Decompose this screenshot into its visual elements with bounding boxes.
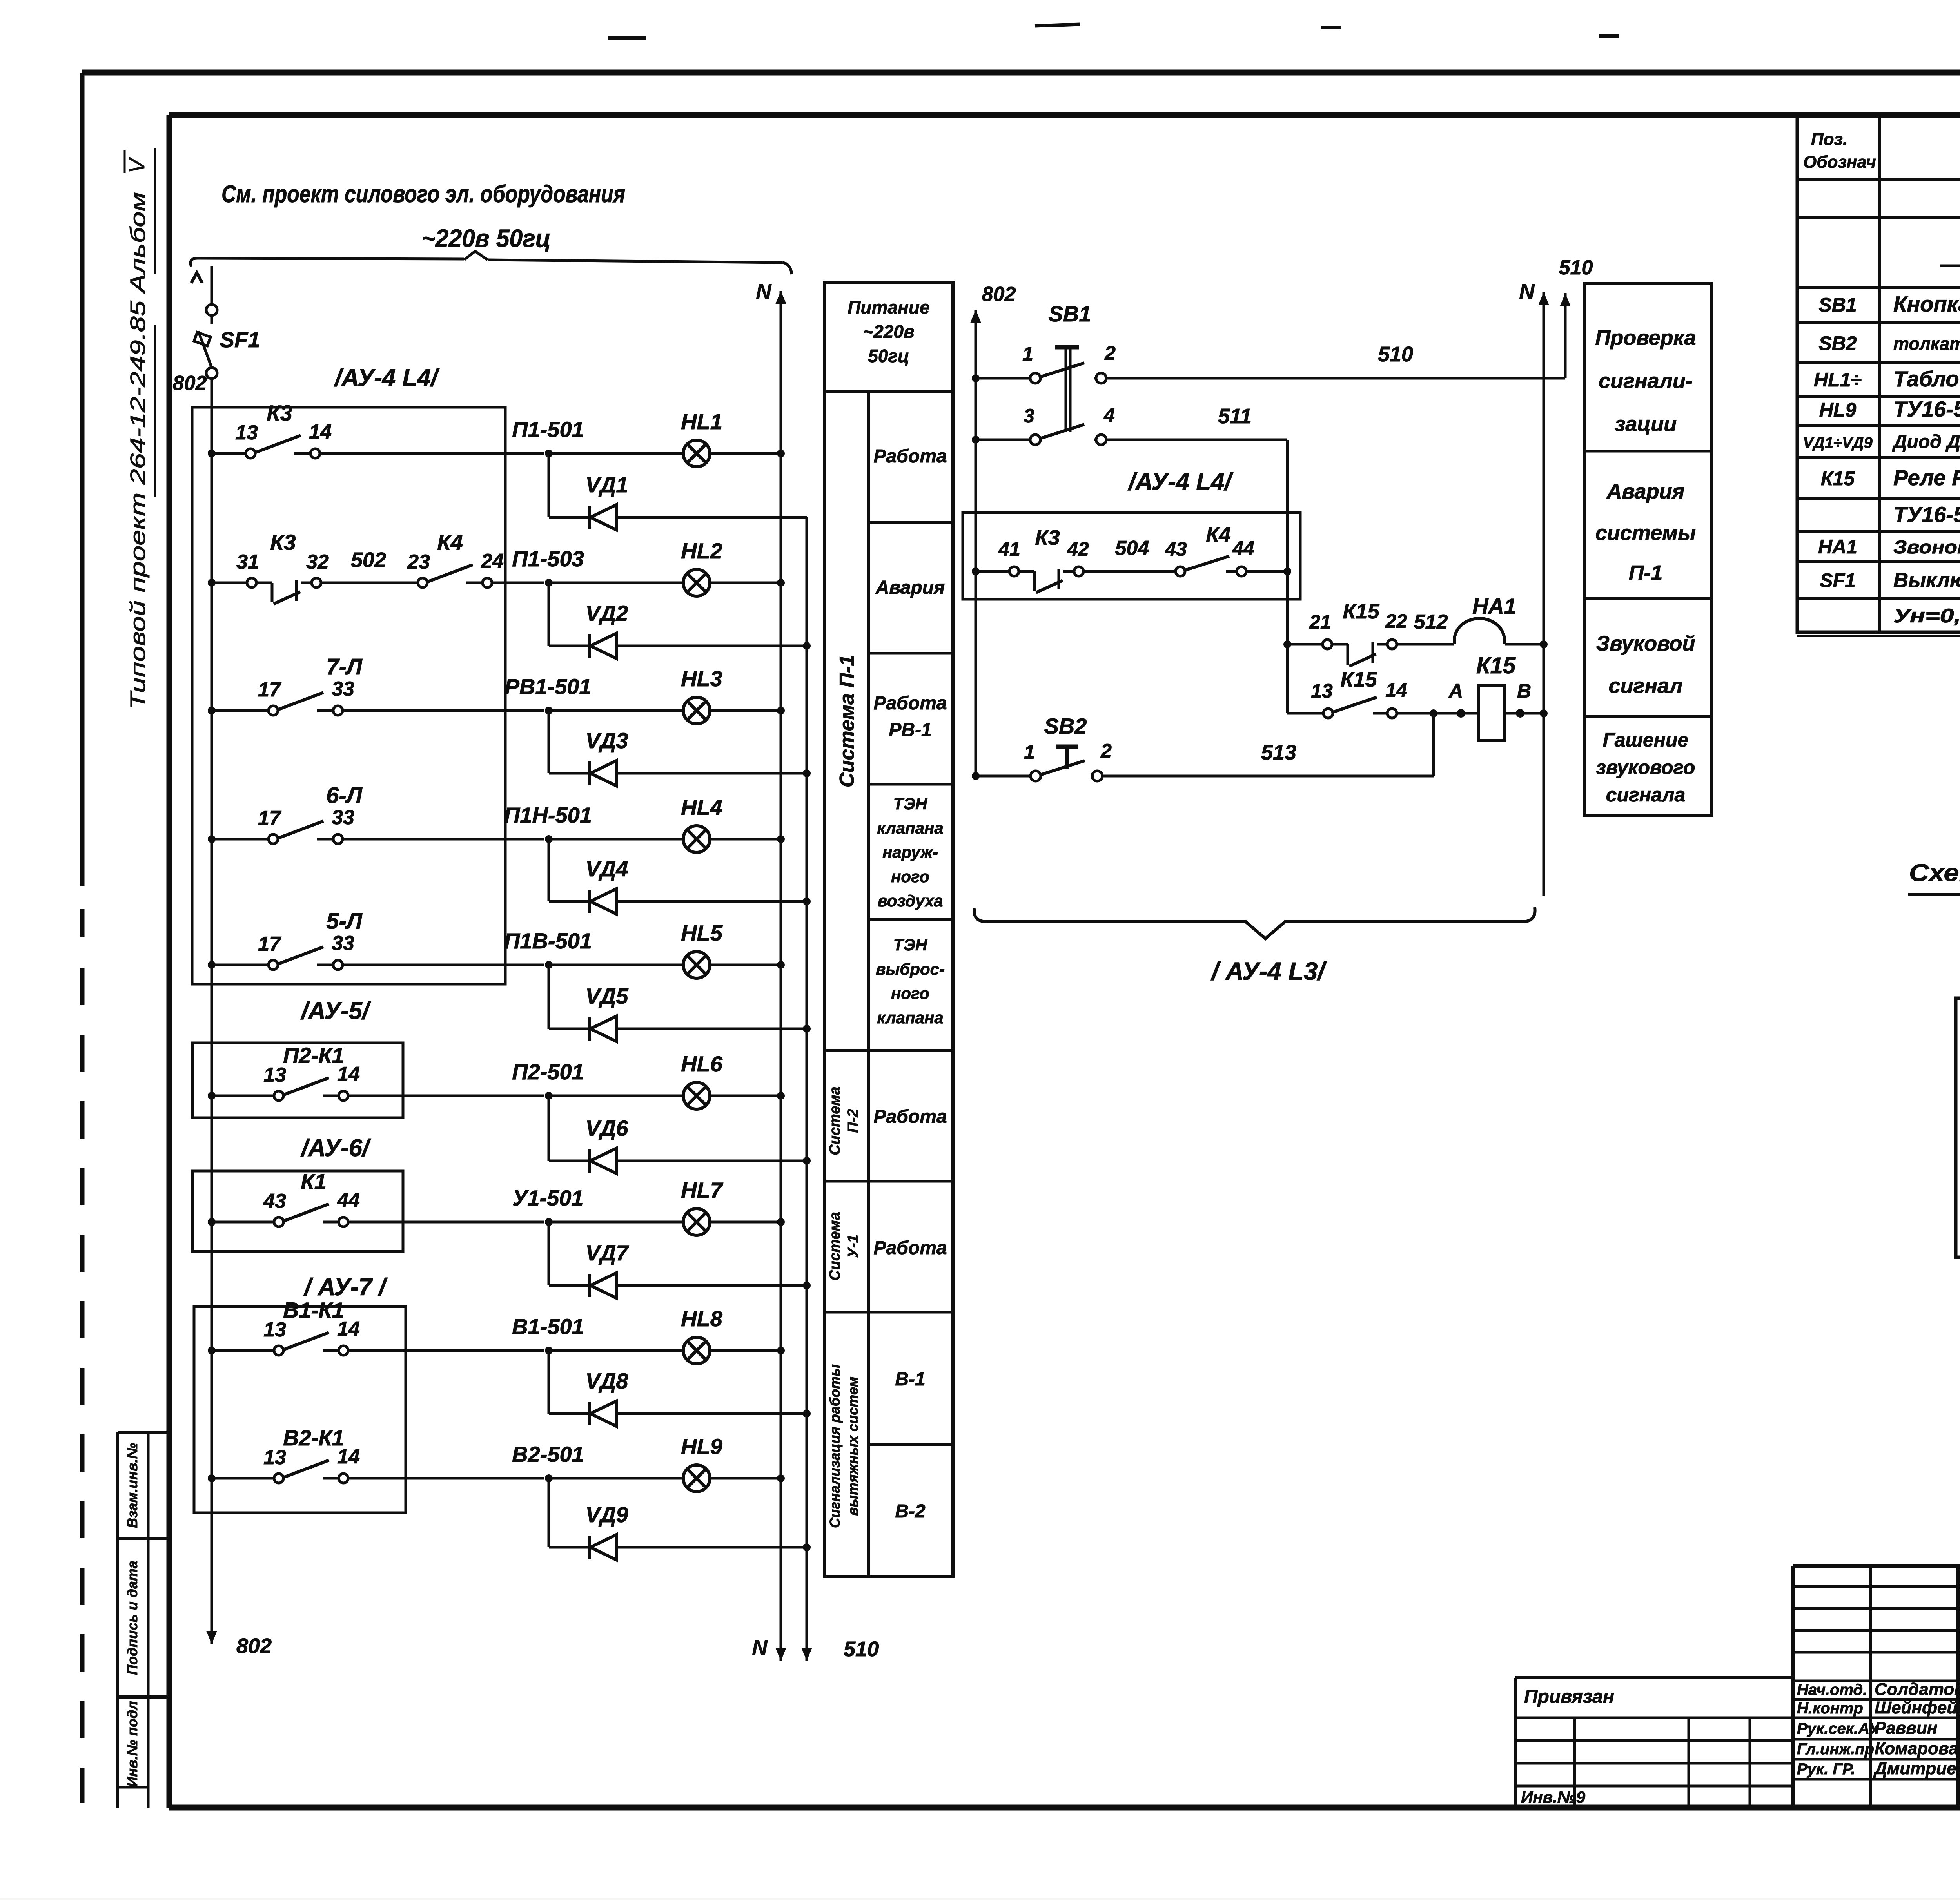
wire node to lamp bbox=[549, 838, 683, 841]
wire row 2 from bus bbox=[208, 579, 216, 587]
diode VД2 bbox=[588, 634, 591, 658]
svg-text:HL8: HL8 bbox=[681, 1306, 723, 1331]
push button SB1 bbox=[972, 374, 980, 382]
wire lamp to N bus bbox=[710, 1095, 781, 1097]
wire row 3 from bus bbox=[208, 707, 216, 714]
contact terminal 13 bbox=[274, 1346, 283, 1355]
wire diode to 510 bus bbox=[616, 1546, 807, 1549]
svg-text:/АУ-4 L4/: /АУ-4 L4/ bbox=[334, 364, 440, 392]
wire node drop to diode VД4 bbox=[548, 839, 550, 901]
svg-text:П2-501: П2-501 bbox=[512, 1059, 584, 1084]
svg-text:V: V bbox=[124, 157, 149, 173]
svg-text:~220в 50гц: ~220в 50гц bbox=[421, 224, 551, 252]
svg-text:5-Л: 5-Л bbox=[326, 908, 363, 934]
title block signature grid bbox=[1791, 1566, 1795, 1808]
wire node to lamp bbox=[549, 1477, 683, 1480]
lamp HL2 bbox=[683, 569, 710, 596]
contact terminal 17 bbox=[269, 960, 278, 970]
drawing frame bbox=[169, 112, 1960, 118]
svg-text:П1-501: П1-501 bbox=[512, 417, 584, 442]
wire lamp to N bus bbox=[710, 1349, 781, 1352]
svg-text:23: 23 bbox=[407, 551, 430, 573]
node П1-503 bbox=[545, 579, 553, 587]
svg-text:Привязан: Привязан bbox=[1524, 1686, 1614, 1707]
wire lamp to N bus bbox=[710, 582, 781, 584]
parts table frame bbox=[1797, 115, 1960, 632]
svg-text:К15: К15 bbox=[1340, 668, 1377, 691]
wire diode to 510 bus bbox=[616, 772, 807, 775]
svg-text:См. проект силового эл. обор: См. проект силового эл. оборудования bbox=[221, 181, 625, 208]
svg-text:HL2: HL2 bbox=[681, 538, 722, 563]
svg-text:13: 13 bbox=[1311, 680, 1333, 702]
svg-text:14: 14 bbox=[1385, 679, 1407, 701]
svg-text:502: 502 bbox=[351, 548, 386, 572]
wire node drop to diode VД6 bbox=[548, 1096, 550, 1161]
svg-text:41: 41 bbox=[998, 538, 1020, 560]
svg-text:Солдатов: Солдатов bbox=[1875, 1680, 1960, 1699]
wire node to lamp bbox=[549, 964, 683, 966]
wire node drop to diode VД8 bbox=[548, 1351, 550, 1414]
contact terminal 33 bbox=[317, 709, 332, 712]
svg-text:НА1: НА1 bbox=[1472, 594, 1516, 618]
svg-text:VД1÷VД9: VД1÷VД9 bbox=[1803, 434, 1873, 451]
svg-text:HL6: HL6 bbox=[681, 1052, 723, 1076]
svg-text:В-1: В-1 bbox=[895, 1369, 925, 1390]
svg-text:512: 512 bbox=[1414, 611, 1448, 633]
svg-text:П1-503: П1-503 bbox=[512, 546, 584, 571]
svg-text:511: 511 bbox=[1218, 404, 1252, 428]
svg-text:Табло ТСМ-Ш-УЗ-01: Табло ТСМ-Ш-УЗ-01 bbox=[1893, 366, 1960, 391]
svg-text:Обознач: Обознач bbox=[1803, 152, 1876, 172]
svg-text:Дмитриева: Дмитриева bbox=[1873, 1759, 1960, 1778]
svg-text:17: 17 bbox=[258, 807, 281, 830]
svg-text:В2-501: В2-501 bbox=[512, 1442, 584, 1467]
svg-text:Работа: Работа bbox=[873, 693, 947, 714]
lamp HL9 bbox=[683, 1465, 710, 1492]
svg-text:17: 17 bbox=[258, 678, 281, 701]
svg-text:Авария: Авария bbox=[1606, 480, 1685, 503]
svg-text:Инв.№9: Инв.№9 bbox=[1521, 1788, 1586, 1806]
svg-text:2: 2 bbox=[1104, 342, 1116, 364]
svg-text:VД8: VД8 bbox=[586, 1369, 629, 1393]
wire 511 bbox=[1106, 439, 1287, 441]
svg-text:VД5: VД5 bbox=[586, 984, 629, 1008]
svg-text:44: 44 bbox=[337, 1189, 360, 1212]
svg-text:33: 33 bbox=[332, 806, 354, 829]
diode VД9 bbox=[588, 1536, 591, 1559]
svg-text:17: 17 bbox=[258, 933, 281, 955]
wire row 8 from bus bbox=[208, 1347, 216, 1354]
svg-text:N: N bbox=[756, 280, 772, 303]
contact terminal 14 bbox=[323, 1477, 338, 1480]
contact К4 43-44 bbox=[1176, 567, 1185, 576]
svg-text:Нач.отд.: Нач.отд. bbox=[1797, 1681, 1867, 1699]
wire lamp to N bus bbox=[710, 964, 781, 966]
svg-text:504: 504 bbox=[1115, 537, 1149, 560]
wire node drop to diode VД2 bbox=[548, 583, 550, 646]
svg-text:13: 13 bbox=[235, 421, 258, 444]
diode VД7 bbox=[588, 1274, 591, 1297]
wire 510 bbox=[1106, 377, 1565, 380]
svg-text:Рук.сек.АУ: Рук.сек.АУ bbox=[1797, 1720, 1880, 1737]
contact terminal 17 bbox=[269, 706, 278, 715]
lamp HL4 bbox=[683, 826, 710, 852]
contact К15 13-14 bbox=[1287, 712, 1323, 715]
phase mark L bbox=[191, 273, 202, 283]
svg-text:Раввин: Раввин bbox=[1875, 1719, 1937, 1738]
diode VД4 bbox=[588, 890, 591, 913]
diode VД6 bbox=[588, 1149, 591, 1173]
wire node drop to diode VД7 bbox=[548, 1222, 550, 1285]
svg-text:/ АУ-7 /: / АУ-7 / bbox=[303, 1274, 388, 1301]
svg-text:НА1: НА1 bbox=[1818, 536, 1857, 558]
wire diode to 510 bus bbox=[616, 516, 807, 519]
svg-text:SB1: SB1 bbox=[1818, 294, 1857, 316]
wire row 1 from bus bbox=[208, 450, 216, 457]
svg-text:сигнала: сигнала bbox=[1606, 784, 1686, 806]
wire lamp to N bus bbox=[710, 452, 781, 455]
svg-text:33: 33 bbox=[332, 678, 354, 700]
wire B to N bus bbox=[1505, 712, 1544, 715]
svg-text:Сигнализация работы: Сигнализация работы bbox=[827, 1364, 843, 1528]
svg-text:К3: К3 bbox=[1035, 526, 1060, 549]
svg-text:А: А bbox=[1448, 680, 1463, 702]
svg-text:Авария: Авария bbox=[875, 577, 945, 598]
brace АУ-4 L3 bbox=[975, 907, 1535, 939]
node П1Н-501 bbox=[545, 835, 553, 843]
svg-text:К3: К3 bbox=[270, 530, 296, 555]
relay coil К15 bbox=[1479, 686, 1505, 741]
svg-text:HL5: HL5 bbox=[681, 921, 723, 945]
contact terminal 33 bbox=[317, 838, 332, 841]
svg-text:вытяжных систем: вытяжных систем bbox=[845, 1377, 861, 1516]
svg-text:802: 802 bbox=[173, 372, 207, 395]
push button SB1 second contact 3-4 bbox=[972, 436, 980, 444]
contact blade bbox=[279, 947, 323, 964]
wire node to lamp bbox=[549, 709, 683, 712]
svg-text:ного: ного bbox=[891, 984, 929, 1003]
svg-text:SB1: SB1 bbox=[1049, 301, 1091, 326]
wire 510 riser with arrow bbox=[1564, 310, 1567, 378]
wire 14 to coil bbox=[1397, 712, 1479, 715]
wire node drop to diode VД5 bbox=[548, 965, 550, 1029]
wire row 7 from bus bbox=[208, 1218, 216, 1226]
contact terminal 13 bbox=[274, 1091, 283, 1100]
svg-text:П1Н-501: П1Н-501 bbox=[504, 803, 592, 827]
sheet outer border top line bbox=[82, 70, 1960, 76]
svg-text:В1-501: В1-501 bbox=[512, 1314, 584, 1339]
contact blade bbox=[256, 435, 301, 452]
node П1-501 bbox=[545, 450, 553, 457]
svg-text:31: 31 bbox=[236, 551, 259, 573]
wire К3 К4 row bbox=[972, 567, 980, 575]
lamp HL7 bbox=[683, 1209, 710, 1235]
svg-text:ТЭН: ТЭН bbox=[893, 935, 928, 954]
push button SB2 bbox=[972, 772, 980, 780]
svg-text:6-Л: 6-Л bbox=[326, 783, 363, 808]
contact blade NC bbox=[256, 582, 272, 584]
wire node to lamp bbox=[549, 452, 683, 455]
svg-text:звукового: звукового bbox=[1596, 756, 1695, 778]
title block top line bbox=[1793, 1564, 1960, 1568]
svg-text:К3: К3 bbox=[267, 401, 292, 425]
svg-text:HL7: HL7 bbox=[681, 1178, 724, 1202]
svg-text:VД7: VД7 bbox=[586, 1240, 630, 1265]
wire diode to 510 bus bbox=[616, 1028, 807, 1030]
svg-text:VД4: VД4 bbox=[586, 856, 628, 881]
terminal A bbox=[1457, 709, 1465, 718]
svg-text:43: 43 bbox=[1165, 538, 1187, 560]
wire row 4 from bus bbox=[208, 835, 216, 843]
contact terminal 13 bbox=[246, 449, 255, 458]
margin text Типовой проект 264-12-249.85 Альбом V bbox=[124, 157, 150, 709]
svg-text:В2-К1: В2-К1 bbox=[283, 1425, 344, 1450]
svg-text:Выключатель автоматический А: Выключатель автоматический А63-МУЗ bbox=[1893, 569, 1960, 592]
node В1-501 bbox=[545, 1347, 553, 1354]
svg-text:толкатель черный, без надписи: толкатель черный, без надписи ТУ16-526.4… bbox=[1893, 333, 1960, 354]
svg-text:В-2: В-2 bbox=[895, 1501, 926, 1522]
wire row 6 from bus bbox=[208, 1092, 216, 1100]
svg-text:Звуковой: Звуковой bbox=[1596, 632, 1695, 655]
wire lamp to N bus bbox=[710, 1221, 781, 1224]
svg-text:К15: К15 bbox=[1821, 468, 1855, 490]
wire lamp to N bus bbox=[710, 1477, 781, 1480]
svg-text:4: 4 bbox=[1103, 404, 1115, 426]
svg-text:К4: К4 bbox=[1206, 523, 1230, 546]
svg-text:510: 510 bbox=[1378, 343, 1413, 366]
svg-text:1: 1 bbox=[1022, 343, 1033, 365]
wire diode to 510 bus bbox=[616, 900, 807, 903]
contact blade bbox=[284, 1078, 329, 1095]
svg-text:Взам.инв.№: Взам.инв.№ bbox=[124, 1443, 140, 1528]
svg-text:клапана: клапана bbox=[877, 1008, 944, 1027]
diode VД3 bbox=[588, 761, 591, 785]
svg-text:К15: К15 bbox=[1343, 600, 1379, 623]
contact blade bbox=[284, 1333, 329, 1349]
svg-text:SB2: SB2 bbox=[1044, 714, 1087, 738]
lamp HL3 bbox=[683, 697, 710, 724]
supply bus ~220v 50Hz bbox=[191, 258, 464, 267]
svg-text:HL9: HL9 bbox=[681, 1434, 722, 1459]
contact blade bbox=[279, 821, 323, 838]
svg-text:3: 3 bbox=[1024, 405, 1034, 427]
svg-text:У-1: У-1 bbox=[845, 1235, 861, 1258]
wire left bus 802 bbox=[211, 379, 213, 1630]
svg-text:Шейнфейн: Шейнфейн bbox=[1875, 1698, 1960, 1717]
svg-text:VД9: VД9 bbox=[586, 1502, 628, 1527]
scan specks top edge bbox=[608, 36, 646, 40]
svg-text:HL1÷: HL1÷ bbox=[1814, 369, 1862, 391]
block box АУ-4 L4 (left) bbox=[192, 407, 505, 984]
pinout box bbox=[1956, 998, 1960, 1257]
svg-text:22: 22 bbox=[1385, 610, 1407, 632]
wire node drop to diode VД1 bbox=[548, 453, 550, 517]
contact terminal 13 bbox=[274, 1474, 283, 1483]
diode VД5 bbox=[588, 1017, 591, 1041]
block box АУ-7 bbox=[194, 1307, 406, 1513]
svg-text:Система: Система bbox=[827, 1212, 843, 1280]
wire diode to 510 bus bbox=[616, 645, 807, 647]
svg-text:42: 42 bbox=[1067, 538, 1089, 560]
svg-text:Кнопка КЕ-011УЗ, исполнение 1: Кнопка КЕ-011УЗ, исполнение 1 bbox=[1893, 292, 1960, 316]
wire 513 riser bbox=[1432, 713, 1435, 776]
wire N bus (check circuit) bbox=[1543, 292, 1545, 337]
block box АУ-4 L4 (check circuit) bbox=[963, 513, 1300, 599]
svg-text:7-Л: 7-Л bbox=[326, 654, 363, 680]
svg-text:2: 2 bbox=[1100, 740, 1112, 762]
wire N bus bbox=[780, 291, 782, 314]
right label boxes frame bbox=[1584, 283, 1711, 815]
contact terminal 14 bbox=[294, 452, 310, 455]
wire diode to 510 bus bbox=[616, 1284, 807, 1287]
contact blade bbox=[279, 693, 323, 709]
svg-text:/АУ-5/: /АУ-5/ bbox=[300, 997, 371, 1024]
svg-text:Инв.№ подл: Инв.№ подл bbox=[124, 1701, 140, 1787]
svg-text:Комарова: Комарова bbox=[1875, 1739, 1958, 1758]
svg-text:1: 1 bbox=[1024, 741, 1035, 763]
svg-text:системы: системы bbox=[1595, 521, 1696, 545]
contact terminal 23 bbox=[418, 578, 427, 587]
wire 513 bbox=[1102, 775, 1434, 778]
svg-text:П-1: П-1 bbox=[1629, 561, 1663, 585]
svg-text:Ун=0,8А Уотс=2Ун ТУ16.522.: Ун=0,8А Уотс=2Ун ТУ16.522.110-74 bbox=[1893, 605, 1960, 627]
wire bell to N bbox=[1505, 643, 1544, 646]
svg-text:ТЭН: ТЭН bbox=[893, 794, 928, 813]
contact terminal 14 bbox=[323, 1095, 338, 1097]
svg-text:44: 44 bbox=[1232, 537, 1254, 559]
wire node to lamp bbox=[549, 1221, 683, 1224]
svg-text:50гц: 50гц bbox=[868, 346, 909, 366]
svg-text:VД1: VД1 bbox=[586, 472, 628, 497]
node П2-501 bbox=[545, 1092, 553, 1100]
terminal B bbox=[1516, 709, 1524, 718]
sheet outer border left line bbox=[80, 73, 85, 886]
signal table frame bbox=[825, 283, 953, 1576]
wire node drop to diode VД3 bbox=[548, 711, 550, 773]
svg-text:К1: К1 bbox=[301, 1169, 327, 1194]
svg-text:43: 43 bbox=[263, 1190, 286, 1213]
svg-text:Работа: Работа bbox=[873, 1238, 947, 1258]
svg-text:HL3: HL3 bbox=[681, 666, 722, 691]
svg-text:Схема выводов контактов: Схема выводов контактов bbox=[1909, 859, 1960, 887]
svg-text:Реле РПУ-2-062203 ~220в: Реле РПУ-2-062203 ~220в bbox=[1893, 465, 1960, 490]
wire to 21-22 row bbox=[1286, 571, 1289, 713]
svg-text:VД6: VД6 bbox=[586, 1116, 629, 1140]
node В2-501 bbox=[545, 1474, 553, 1482]
contact terminal 14 bbox=[323, 1349, 338, 1352]
Привязан strip bbox=[1515, 1676, 1793, 1679]
svg-text:П2-К1: П2-К1 bbox=[283, 1043, 344, 1068]
wire node to lamp bbox=[549, 582, 683, 584]
svg-text:сигнал: сигнал bbox=[1609, 674, 1683, 698]
svg-text:N: N bbox=[1519, 280, 1535, 303]
contact terminal 33 bbox=[317, 964, 332, 966]
node У1-501 bbox=[545, 1218, 553, 1226]
contact blade bbox=[284, 1460, 329, 1477]
wire lamp to N bus bbox=[710, 709, 781, 712]
svg-text:Подпись и дата: Подпись и дата bbox=[124, 1561, 140, 1675]
svg-text:Проверка: Проверка bbox=[1595, 326, 1696, 350]
svg-text:HL9: HL9 bbox=[1819, 399, 1857, 421]
svg-text:Поз.: Поз. bbox=[1811, 130, 1847, 149]
svg-text:П-2: П-2 bbox=[845, 1109, 861, 1133]
svg-text:~220в: ~220в bbox=[863, 321, 914, 342]
svg-text:зации: зации bbox=[1615, 412, 1677, 436]
contact terminal 24 bbox=[466, 582, 482, 584]
circuit breaker SF1 bbox=[211, 266, 213, 305]
svg-text:ТУ16-523.331-78: ТУ16-523.331-78 bbox=[1893, 502, 1960, 527]
svg-text:Типовой проект 264-12-249.85: Типовой проект 264-12-249.85 Альбом bbox=[126, 192, 150, 709]
svg-text:/АУ-6/: /АУ-6/ bbox=[300, 1135, 371, 1162]
svg-text:N: N bbox=[752, 1636, 768, 1659]
svg-text:SF1: SF1 bbox=[1820, 569, 1856, 591]
svg-text:14: 14 bbox=[309, 421, 332, 443]
svg-text:/ АУ-4 L3/: / АУ-4 L3/ bbox=[1210, 957, 1327, 985]
svg-text:SB2: SB2 bbox=[1818, 332, 1857, 354]
contact terminal 17 bbox=[269, 834, 278, 844]
svg-text:В1-К1: В1-К1 bbox=[283, 1298, 344, 1322]
wire node to lamp bbox=[549, 1349, 683, 1352]
svg-text:510: 510 bbox=[844, 1637, 879, 1661]
svg-text:У1-501: У1-501 bbox=[512, 1186, 583, 1210]
svg-text:VД2: VД2 bbox=[586, 601, 628, 625]
wire row 9 from bus bbox=[208, 1474, 216, 1482]
svg-text:Рук. ГР.: Рук. ГР. bbox=[1797, 1760, 1855, 1778]
svg-text:ного: ного bbox=[891, 867, 929, 886]
bell HA1 bbox=[1454, 618, 1504, 644]
svg-text:802: 802 bbox=[236, 1634, 272, 1658]
svg-text:РВ-1: РВ-1 bbox=[889, 720, 931, 740]
wire diode to 510 bus bbox=[616, 1160, 807, 1162]
svg-text:П1В-501: П1В-501 bbox=[504, 928, 592, 953]
wire row 5 from bus bbox=[208, 961, 216, 969]
wire 512 bbox=[1397, 643, 1454, 646]
svg-text:510: 510 bbox=[1559, 256, 1593, 279]
node П1В-501 bbox=[545, 961, 553, 969]
svg-text:513: 513 bbox=[1261, 741, 1296, 764]
lamp HL5 bbox=[683, 952, 710, 978]
contact terminal 43 bbox=[274, 1217, 283, 1227]
svg-text:HL1: HL1 bbox=[681, 409, 722, 434]
svg-text:VД3: VД3 bbox=[586, 728, 628, 753]
wire lamp to N bus bbox=[710, 838, 781, 841]
svg-text:802: 802 bbox=[982, 283, 1016, 306]
svg-text:наруж-: наруж- bbox=[882, 843, 938, 861]
svg-text:Система П-1: Система П-1 bbox=[836, 655, 858, 787]
svg-text:Работа: Работа bbox=[873, 1106, 947, 1127]
contact terminal 31 bbox=[247, 578, 256, 587]
svg-text:24: 24 bbox=[481, 550, 504, 573]
wire diode to 510 bus bbox=[616, 1412, 807, 1415]
svg-text:сигнали-: сигнали- bbox=[1599, 369, 1693, 393]
left strip Взам.инв.№ / Подпись и дата / Инв.№ подл bbox=[118, 1431, 169, 1434]
svg-text:Н.контр: Н.контр bbox=[1797, 1700, 1863, 1717]
contact terminal 32 bbox=[301, 582, 311, 584]
wire node to lamp bbox=[549, 1095, 683, 1097]
lamp HL6 bbox=[683, 1082, 710, 1109]
svg-text:ТУ16-535.424-79: ТУ16-535.424-79 bbox=[1893, 397, 1960, 421]
svg-text:Гл.инж.пр: Гл.инж.пр bbox=[1797, 1740, 1874, 1758]
lamp HL1 bbox=[683, 440, 710, 467]
svg-text:РВ1-501: РВ1-501 bbox=[505, 674, 591, 699]
svg-text:Звонок ЗВП-220МЧ ~220в ТУ16: Звонок ЗВП-220МЧ ~220в ТУ16-739-059-75 bbox=[1893, 537, 1960, 557]
svg-text:Система: Система bbox=[827, 1086, 843, 1155]
svg-text:Питание: Питание bbox=[848, 297, 929, 317]
contact terminal 44 bbox=[323, 1221, 338, 1224]
svg-text:К4: К4 bbox=[437, 530, 463, 555]
block box АУ-6 bbox=[192, 1171, 403, 1251]
node РВ1-501 bbox=[545, 707, 553, 714]
